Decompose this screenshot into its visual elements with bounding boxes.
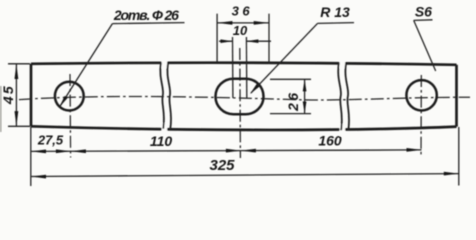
break line 1 left [160,63,164,129]
slot 36x26 R13 [216,79,264,115]
scan artifact left edge [0,86,2,132]
svg-text:26: 26 [285,91,301,112]
label S6 with leader [414,20,436,71]
break gap erase top 1 [162,58,168,68]
centerline left hole vertical [69,74,72,158]
centerline horizontal [19,96,470,100]
label 2отв. Ф 26 with leader [60,23,185,107]
svg-text:325: 325 [209,157,235,174]
break line 2 left [338,63,342,130]
hole right Ø26 [406,80,436,110]
break gap erase bottom 2 [340,124,346,136]
dimension 36 [217,14,269,64]
dimension 26 [270,79,311,113]
break line 1 right [167,63,171,129]
svg-text:27,5: 27,5 [37,132,64,147]
svg-text:R 13: R 13 [320,4,350,20]
svg-text:2отв. Ф 26: 2отв. Ф 26 [113,7,179,23]
break gap erase top 2 [340,58,346,68]
dimension 45 [8,64,30,127]
dimension 110 [71,149,241,153]
dimension 27,5 [31,127,71,186]
svg-text:10: 10 [233,23,248,38]
dimension 160 [241,148,422,152]
centerline right hole vertical [420,75,422,156]
break gap erase bottom 1 [162,123,168,135]
svg-text:36: 36 [232,4,254,19]
plate outline [31,63,457,130]
label R 13 with leader [250,23,354,94]
dimension 10 [219,37,271,98]
svg-text:S6: S6 [415,3,432,19]
break line 2 right [345,63,349,130]
svg-text:160: 160 [318,133,342,149]
hole left Ø26 [55,82,84,111]
dimension 325 [31,127,459,186]
centerline slot vertical [239,48,242,158]
svg-text:110: 110 [150,133,173,149]
svg-text:45: 45 [0,84,16,105]
